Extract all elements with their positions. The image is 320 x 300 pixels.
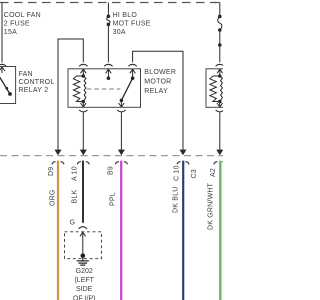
right branch wire from bus — [219, 3, 221, 17]
wire from fuse to blower motor relay — [107, 24, 109, 62]
terminal arc above coil pin — [79, 64, 87, 66]
fuse bottom dot — [107, 23, 111, 27]
coil bottom arrow to box edge — [81, 102, 87, 108]
right fuse element (S curve) — [218, 16, 222, 30]
connector terminal arc at fan control relay 2 — [0, 64, 6, 66]
wire switch common down to connector — [120, 112, 122, 150]
connector bracket BLK — [77, 162, 89, 165]
svg-text:FAN: FAN — [19, 71, 33, 78]
svg-text:(LEFT: (LEFT — [74, 277, 94, 284]
terminal arc above switch pin — [128, 64, 136, 66]
svg-text:2 FUSE: 2 FUSE — [4, 21, 30, 28]
connector bracket DK BLU — [177, 162, 189, 165]
right coil top dot — [218, 74, 222, 78]
switch common dot — [120, 99, 124, 103]
svg-text:A 10: A 10 — [72, 166, 79, 181]
wire below right fuse — [219, 30, 221, 62]
fuse element (S curve) — [107, 16, 110, 24]
svg-text:COOL FAN: COOL FAN — [4, 12, 41, 19]
right fuse bottom dot — [218, 28, 222, 32]
svg-text:RELAY: RELAY — [144, 88, 168, 95]
svg-text:PPL: PPL — [109, 192, 116, 206]
fan control relay 2 box — [0, 67, 16, 104]
right relay box (clipped) — [206, 69, 230, 108]
svg-text:15A: 15A — [4, 29, 17, 36]
switch arm in fan control relay 2 — [0, 76, 10, 94]
wire DK BLU — [182, 161, 184, 300]
svg-text:G202: G202 — [76, 268, 93, 275]
switch arm dot (mid) — [5, 87, 8, 90]
terminal arrow inside (coil pin) — [81, 69, 87, 76]
svg-text:BLOWER: BLOWER — [144, 69, 176, 76]
svg-text:G: G — [70, 219, 75, 226]
wire PPL — [120, 161, 122, 300]
label COOL FAN 2 FUSE 15A — [4, 12, 41, 36]
svg-text:C 10: C 10 — [173, 165, 180, 181]
svg-text:DK BLU: DK BLU — [173, 187, 180, 214]
ground arrow inside box — [80, 232, 86, 256]
switch arm dot (end) — [8, 92, 12, 96]
label BLOWER MOTOR RELAY — [144, 69, 176, 95]
right coil bottom dot — [218, 100, 222, 104]
svg-text:ORG: ORG — [49, 189, 56, 206]
terminal arc below switch common — [117, 110, 125, 112]
svg-text:B9: B9 — [108, 166, 115, 175]
connector arrow DK GRN/WHT — [217, 150, 223, 155]
terminal arrow inside fan control relay 2 — [0, 67, 5, 73]
terminal arc below right coil — [216, 110, 224, 112]
wire BLK — [82, 161, 84, 223]
connector pass-through dashed line — [0, 155, 223, 157]
svg-text:MOT FUSE: MOT FUSE — [113, 21, 151, 28]
right relay coil zigzag (left winding) — [210, 76, 220, 102]
ground symbol bars — [77, 256, 89, 265]
connector arrow ORG — [55, 150, 61, 155]
connector bracket DK GRN/WHT — [214, 162, 226, 165]
wire loop feeding relay coil and ORG circuit — [58, 39, 83, 150]
switch common arrow to box edge — [119, 100, 125, 107]
ground dot — [81, 254, 86, 259]
terminal arc above right relay coil — [216, 64, 224, 66]
coil bottom dot — [82, 100, 86, 104]
relay coil zigzag (right winding) — [83, 76, 86, 102]
right coil bottom arrow — [217, 102, 223, 108]
connector bracket ORG — [52, 162, 64, 165]
connector bracket PPL — [115, 162, 127, 165]
wire ORG — [57, 161, 59, 300]
svg-text:CONTROL: CONTROL — [19, 79, 55, 86]
blower motor relay box — [68, 69, 141, 108]
svg-text:30A: 30A — [113, 29, 126, 36]
fuse top dot — [107, 14, 111, 18]
label FAN CONTROL RELAY 2 — [19, 71, 55, 94]
svg-text:SIDE: SIDE — [76, 286, 93, 293]
connector arrow PPL — [118, 150, 124, 155]
wire from bus to fan control relay 2 — [1, 3, 3, 63]
terminal arc above NC stub pin — [104, 64, 112, 66]
NC stub arrow + dot — [106, 69, 112, 78]
svg-text:C3: C3 — [191, 169, 198, 178]
svg-text:OF I/P): OF I/P) — [73, 296, 96, 300]
svg-text:HI BLO: HI BLO — [113, 12, 138, 19]
svg-text:BLK: BLK — [71, 190, 78, 204]
svg-text:DK GRN/WHT: DK GRN/WHT — [208, 182, 215, 230]
connector arrow BLK — [80, 150, 86, 155]
coil top dot — [82, 74, 86, 78]
top-right corner of dashed bus — [214, 2, 220, 4]
svg-text:RELAY 2: RELAY 2 — [19, 87, 49, 94]
connector arrow DK BLU — [180, 150, 186, 155]
ground name G202 (LEFT SIDE OF I/P) — [73, 268, 96, 300]
svg-text:A2: A2 — [210, 168, 217, 177]
ground dashed box — [65, 232, 102, 259]
right fuse top dot — [218, 15, 222, 19]
top dashed bus line — [0, 2, 216, 4]
fuse HI BLO MOT (wire from bus) — [107, 3, 109, 17]
svg-text:D9: D9 — [48, 167, 55, 176]
svg-text:MOTOR: MOTOR — [144, 79, 171, 86]
junction dot on right wire — [218, 43, 222, 47]
label HI BLO MOT FUSE 30A — [113, 12, 151, 36]
right coil terminal arrow — [217, 69, 223, 76]
wire coil pin down to connector — [82, 112, 84, 150]
wire DK GRN/WHT — [219, 161, 221, 300]
ground connector arc — [79, 227, 87, 229]
mechanical link (gray dashed) — [87, 88, 121, 90]
terminal arc below coil pin — [79, 110, 87, 112]
right relay coil zigzag (right winding) — [220, 76, 223, 102]
wire right coil down to connector — [219, 112, 221, 150]
wire switch NO pin up and over to DK BLU drop — [133, 51, 183, 150]
switch pin arrow + dot — [130, 69, 136, 78]
relay switch arm — [121, 78, 132, 100]
relay coil zigzag (left winding) — [73, 76, 83, 102]
